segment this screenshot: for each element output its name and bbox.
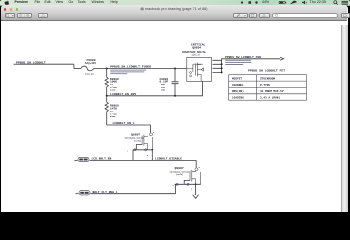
junction gate bus at C9802 [174, 95, 176, 97]
pin wires Q9804 right [213, 60, 222, 72]
junction Q9807b source [195, 183, 197, 185]
svg-text:LCD_BKLT_EN: LCD_BKLT_EN [92, 158, 112, 161]
wire into fuse [74, 68, 81, 70]
svg-text:2: 2 [153, 132, 154, 134]
transistor Q9804 body box [187, 57, 212, 81]
pin circles Q9807a [150, 133, 153, 136]
wire FET output bus [222, 59, 280, 73]
svg-text:3.43 A (RUN): 3.43 A (RUN) [260, 95, 280, 99]
svg-text:BKLT_FLT_REG_L: BKLT_FLT_REG_L [93, 191, 118, 194]
note lines under FSD [225, 59, 251, 62]
transistor Q9807b symbol [190, 170, 201, 184]
svg-text:3: 3 [173, 185, 174, 187]
svg-text:STOCKROOM: STOCKROOM [260, 78, 275, 81]
pin circles Q9804 [190, 72, 192, 74]
svg-text:PPBUS_SW_LCDBKLT: PPBUS_SW_LCDBKLT [16, 61, 46, 65]
pin number labels Q9807a [127, 132, 199, 190]
transistor Q9807a wires [150, 131, 152, 133]
svg-text:X5R: X5R [161, 88, 166, 91]
wire jog down [73, 64, 75, 68]
junction gate bus at R9809 [106, 95, 108, 97]
resistor R9809 [105, 96, 108, 125]
svg-text:PPBUS_SW_LCDBKLT_FUSED: PPBUS_SW_LCDBKLT_FUSED [110, 64, 151, 68]
wire LCD_BKLT_EN bus [90, 159, 197, 161]
transistor Q9804 internal symbol [187, 63, 204, 82]
transistor Q9807a pins bar [133, 145, 153, 161]
svg-text:3: 3 [147, 155, 148, 157]
svg-text:PPBUS_SW_LCDBKLT_FSD: PPBUS_SW_LCDBKLT_FSD [225, 56, 261, 59]
wire down to Q9807b [195, 160, 197, 168]
svg-text:RDS(ON): RDS(ON) [232, 89, 244, 93]
svg-text:CS02-AB: CS02-AB [85, 73, 94, 76]
pin circles Q9807b [195, 168, 198, 171]
svg-text:0402: 0402 [110, 115, 116, 118]
svg-text:5: 5 [199, 167, 200, 169]
wire gate bus LCDBKLT_EN_R2V [107, 81, 203, 95]
junction node FUSED at C9802 [174, 68, 176, 70]
svg-text:LCDBKLT_EN_L: LCDBKLT_EN_L [113, 121, 135, 125]
resistor R9808 [105, 69, 108, 96]
svg-text:P-TYPE: P-TYPE [260, 84, 270, 87]
wire fuse to Q9804 [94, 68, 187, 70]
junction node FUSED at R9808 [106, 68, 108, 70]
svg-text:1A@+32V: 1A@+32V [85, 61, 96, 65]
arrow PPBUS_SW_LCDBKLT_FSD out [280, 57, 284, 60]
svg-text:LCDBKLT_DISABLE: LCDBKLT_DISABLE [155, 158, 182, 161]
svg-text:PPBUS SW LCDBKLT FET: PPBUS SW LCDBKLT FET [248, 69, 285, 73]
junction FET bus pins [221, 63, 223, 65]
svg-text:CHANNEL: CHANNEL [232, 84, 244, 87]
svg-text:Q9804: Q9804 [192, 47, 201, 50]
svg-text:LOADING: LOADING [232, 96, 244, 99]
wire LCDBKLT_EN_L [107, 125, 151, 131]
transistor Q9807a symbol [142, 135, 152, 150]
wire to ground [195, 184, 197, 195]
flag text BKLT_FLT_REG_L [80, 192, 84, 194]
svg-text:2: 2 [191, 189, 192, 191]
node flag LCD_BKLT_EN [75, 159, 78, 161]
table cells [232, 78, 284, 100]
capacitor C9802 [172, 69, 179, 96]
svg-text:1: 1 [127, 151, 128, 153]
node flag BKLT_FLT_REG_L [76, 193, 79, 195]
node PPBUS_SW_LCDBKLT stub [14, 63, 16, 65]
svg-text:SOT6-3P: SOT6-3P [192, 54, 201, 57]
flag text LCD_BKLT_EN [79, 159, 83, 161]
table PPBUS SW LCDBKLT FET [229, 75, 307, 101]
transistor Q9807b pins bar [175, 180, 201, 193]
svg-text:(1of2): (1of2) [134, 139, 141, 142]
svg-text:LCDBKLT_EN_R2V: LCDBKLT_EN_R2V [110, 92, 136, 96]
svg-text:43 MOHM MAX.5V: 43 MOHM MAX.5V [260, 90, 284, 93]
fuse F9800 [81, 66, 94, 71]
svg-text:MOSFET: MOSFET [232, 78, 242, 81]
menu bar [0, 0, 350, 6]
junction Q9807a source [151, 149, 153, 151]
note lines under FUSED [110, 69, 146, 72]
wire BKLT_FLT_REG_L bus [91, 193, 176, 195]
wire PPBUS_SW_LCDBKLT horizontal [16, 63, 74, 65]
ground [193, 195, 199, 199]
svg-text:(2of2): (2of2) [176, 173, 183, 176]
